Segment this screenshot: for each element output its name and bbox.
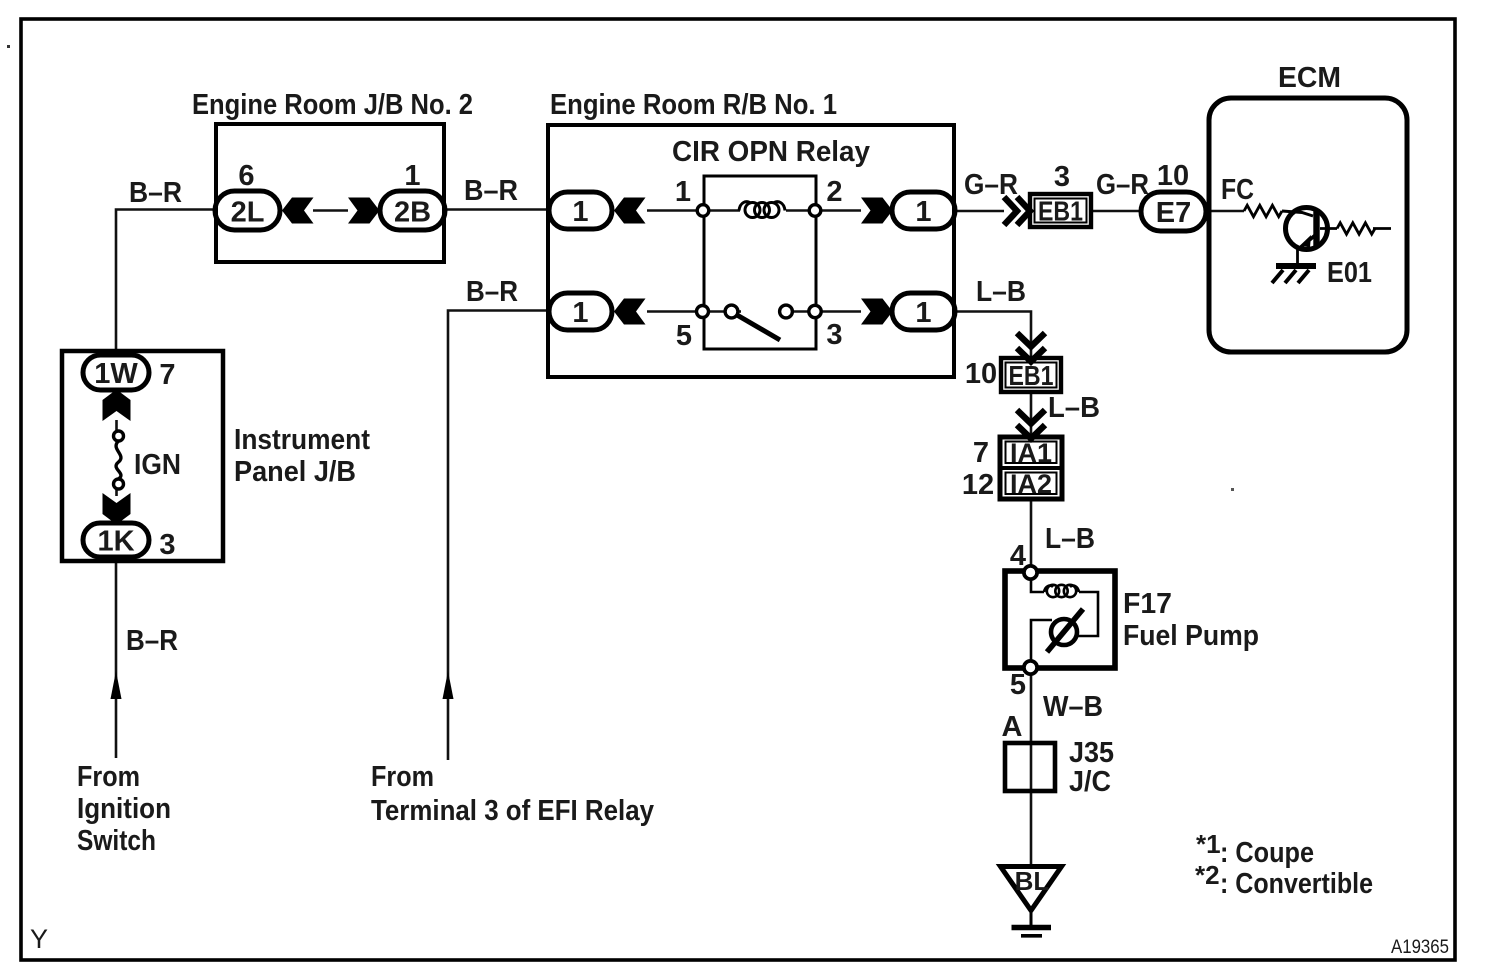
svg-text:2B: 2B (394, 197, 431, 229)
svg-text:1K: 1K (97, 526, 134, 558)
svg-text:Y: Y (30, 924, 48, 954)
svg-text:12: 12 (962, 469, 994, 501)
svg-text:Ignition: Ignition (77, 793, 171, 825)
svg-text:1: 1 (915, 297, 931, 329)
svg-text:3: 3 (159, 529, 175, 561)
svg-text:*1: *1 (1196, 829, 1221, 859)
svg-text:B–R: B–R (464, 175, 518, 207)
svg-text:From: From (77, 761, 140, 793)
svg-text:: Convertible: : Convertible (1220, 868, 1373, 900)
svg-text:A: A (1002, 711, 1023, 743)
svg-text:1: 1 (915, 196, 931, 228)
svg-text:2L: 2L (231, 197, 265, 229)
svg-text:Fuel Pump: Fuel Pump (1123, 620, 1259, 652)
svg-text:CIR OPN Relay: CIR OPN Relay (672, 136, 870, 168)
svg-text:J/C: J/C (1069, 766, 1111, 798)
svg-text:L–B: L–B (1045, 523, 1095, 555)
svg-text:B–R: B–R (126, 625, 178, 657)
svg-text:1: 1 (572, 196, 588, 228)
svg-text:Panel J/B: Panel J/B (234, 456, 356, 488)
svg-text:Engine Room J/B No. 2: Engine Room J/B No. 2 (192, 89, 473, 121)
svg-text:E01: E01 (1327, 257, 1372, 289)
svg-text:Instrument: Instrument (234, 424, 370, 456)
svg-text:E7: E7 (1156, 197, 1191, 229)
svg-text:Engine Room R/B No. 1: Engine Room R/B No. 1 (550, 89, 837, 121)
svg-text:7: 7 (973, 437, 989, 469)
svg-text:W–B: W–B (1043, 691, 1103, 723)
svg-text:From: From (371, 761, 434, 793)
svg-text:IA2: IA2 (1010, 469, 1052, 499)
svg-text:Terminal 3 of EFI Relay: Terminal 3 of EFI Relay (371, 795, 654, 827)
svg-text:3: 3 (1054, 161, 1070, 193)
svg-text:5: 5 (1010, 669, 1026, 701)
svg-text:3: 3 (826, 319, 842, 351)
svg-text:1: 1 (572, 297, 588, 329)
svg-text:EB1: EB1 (1009, 360, 1054, 391)
svg-text:B–R: B–R (466, 276, 518, 308)
svg-text:L–B: L–B (976, 276, 1026, 308)
svg-text:B–R: B–R (129, 177, 182, 209)
svg-text:EB1: EB1 (1038, 196, 1083, 227)
svg-text:10: 10 (965, 358, 997, 390)
svg-text:L–B: L–B (1048, 392, 1100, 424)
svg-text:ECM: ECM (1278, 62, 1341, 94)
svg-text:7: 7 (159, 359, 175, 391)
svg-text:1: 1 (404, 160, 420, 192)
svg-text:6: 6 (238, 160, 254, 192)
svg-text:1: 1 (675, 176, 691, 208)
svg-text:*2: *2 (1195, 860, 1220, 890)
svg-text:J35: J35 (1069, 737, 1114, 769)
svg-text:4: 4 (1010, 540, 1026, 572)
svg-text:A19365: A19365 (1391, 937, 1449, 958)
svg-text:BL: BL (1015, 866, 1050, 896)
svg-text:Switch: Switch (77, 825, 156, 857)
svg-text:: Coupe: : Coupe (1220, 837, 1314, 869)
svg-text:IA1: IA1 (1010, 438, 1052, 468)
svg-text:10: 10 (1157, 160, 1189, 192)
svg-text:FC: FC (1221, 174, 1254, 206)
svg-text:5: 5 (676, 320, 692, 352)
svg-text:G–R: G–R (1096, 169, 1149, 201)
svg-text:IGN: IGN (134, 449, 181, 481)
svg-text:F17: F17 (1123, 588, 1172, 620)
svg-text:1W: 1W (94, 358, 138, 390)
svg-text:2: 2 (826, 176, 842, 208)
svg-text:G–R: G–R (964, 169, 1018, 201)
